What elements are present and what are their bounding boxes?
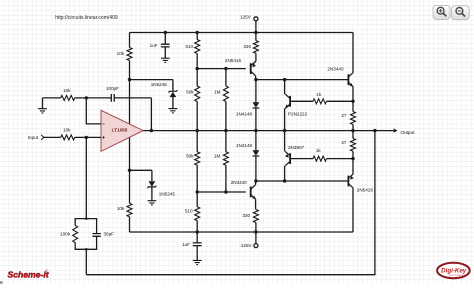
node top output emitter / 1k junction — [351, 100, 354, 103]
resistor 10k (input) — [44, 136, 61, 138]
svg-text:125V: 125V — [240, 14, 252, 19]
svg-text:1k: 1k — [316, 92, 322, 97]
svg-text:330: 330 — [242, 213, 250, 218]
resistor 27 (top) — [352, 101, 354, 111]
svg-text:27: 27 — [341, 140, 347, 145]
resistor 330 (bottom) — [255, 199, 257, 209]
svg-text:2N5416: 2N5416 — [357, 187, 374, 192]
svg-text:LT1055: LT1055 — [112, 128, 128, 133]
wire bottom supply rail — [130, 231, 354, 233]
svg-text:10k: 10k — [63, 88, 71, 93]
node bus / 1M junction — [224, 129, 227, 132]
svg-text:510: 510 — [185, 209, 193, 214]
transistor 2N5416 (bottom output, PNP) — [347, 176, 349, 187]
transistor 2N5416 (top driver, PNP) — [250, 63, 252, 74]
svg-text:330: 330 — [243, 44, 251, 49]
Digi-Key logo — [437, 263, 470, 278]
svg-text:-125V: -125V — [239, 243, 252, 248]
node bus / feedback junction — [373, 129, 376, 132]
svg-text:P2N2222: P2N2222 — [288, 112, 308, 117]
node V+ zener tap — [128, 78, 131, 81]
node bottom collector line / limiter collector — [283, 179, 286, 182]
wire V+ tap to zener — [130, 79, 173, 81]
resistor 50k (top) — [196, 69, 198, 86]
node bottom base-line / 1M junction — [224, 190, 227, 193]
capacitor 1uF (bottom rail decoupling) — [196, 232, 198, 243]
svg-text:50k: 50k — [186, 154, 194, 159]
ground (top 1uF) — [161, 58, 170, 62]
transistor 2N3440 (top output, NPN) — [347, 74, 349, 85]
svg-text:1M: 1M — [214, 89, 221, 94]
svg-text:1N5245: 1N5245 — [159, 191, 176, 196]
node bus / limiter emitters junction — [283, 129, 286, 132]
diode 1N4148 (lower) — [255, 131, 257, 151]
svg-text:1uF: 1uF — [150, 43, 158, 48]
wire bottom base line — [197, 191, 246, 193]
svg-text:http://circuits.linear.com/409: http://circuits.linear.com/409 — [55, 15, 118, 21]
svg-text:Scheme-it: Scheme-it — [8, 270, 50, 280]
resistor 10k (V+ bias) — [129, 33, 131, 48]
svg-text:1N4148: 1N4148 — [236, 112, 253, 117]
node inverting input junction — [85, 136, 88, 139]
resistor 1k (bottom) — [290, 158, 313, 160]
node bottom output emitter / 1k junction — [351, 157, 354, 160]
wire top collector line (Q1 to Q2 base) — [256, 79, 349, 81]
node diode chain / bottom collector line — [254, 179, 257, 182]
node junction bottom rail / -125V — [254, 230, 257, 233]
svg-text:Input: Input — [28, 135, 39, 140]
node bus / output stage junction — [351, 129, 354, 132]
wire bottom collector line (to bottom output base) — [256, 180, 349, 182]
capacitor 1uF (top rail decoupling) — [164, 33, 166, 45]
resistor 1M (bottom) — [225, 131, 227, 152]
transistor P2N2222 (top limiter, NPN) — [289, 96, 291, 107]
svg-text:10k: 10k — [117, 51, 125, 56]
resistor 1M (top) — [225, 69, 227, 86]
node bus / 50k junction — [196, 129, 199, 132]
node junction top rail / 510 — [196, 31, 199, 34]
svg-text:510: 510 — [185, 44, 193, 49]
svg-text:50k: 50k — [186, 90, 194, 95]
svg-text:1N4148: 1N4148 — [236, 143, 253, 148]
node collector line / current-limit collector — [283, 78, 286, 81]
resistor 27 (bottom) — [352, 131, 354, 139]
node top base-line / 1M junction — [224, 67, 227, 70]
svg-text:27: 27 — [341, 113, 347, 118]
wire top base line — [197, 68, 246, 70]
node feedback box bottom junction — [85, 248, 88, 251]
wire 100pF to op-amp output — [150, 98, 152, 131]
ground (V- zener) — [148, 201, 157, 205]
node collector line / diode chain — [254, 78, 257, 81]
ground (bottom 1uF) — [193, 260, 202, 264]
svg-text:1M: 1M — [214, 154, 221, 159]
svg-text:1uF: 1uF — [182, 242, 190, 247]
node output / local feedback junction — [150, 129, 153, 132]
wire -125V terminal to bottom rail — [255, 232, 257, 244]
zener diode 1N5245 (V- clamp) — [151, 170, 153, 181]
wire + input stub — [86, 98, 101, 124]
capacitor 100pF (local feedback) — [86, 97, 111, 99]
wire feedback drop — [86, 131, 375, 275]
capacitor 30pF (feedback) — [86, 219, 96, 234]
resistor 10k (V- bias) — [129, 137, 131, 203]
node -125V terminal — [254, 244, 258, 248]
op-amp - input mark — [102, 123, 104, 125]
ground (V+ zener) — [169, 109, 178, 113]
op-amp LT1055 — [101, 110, 143, 151]
node bus / diode chain junction — [254, 129, 257, 132]
node +125V terminal — [254, 17, 258, 21]
svg-text:2N3440: 2N3440 — [327, 66, 344, 71]
transistor 2N3440 (bottom driver, NPN) — [250, 187, 252, 198]
zoom-out button — [452, 6, 470, 20]
node top base-line / 510-50k junction — [196, 67, 199, 70]
svg-text:100pF: 100pF — [106, 86, 119, 91]
node + input junction — [85, 96, 88, 99]
node bottom base-line / 50k-510 junction — [196, 190, 199, 193]
wire op-amp output bus — [143, 130, 394, 132]
node junction top rail / 1uF — [164, 31, 167, 34]
transistor 2N3907 (bottom limiter, PNP) — [289, 153, 291, 164]
node V- zener tap — [128, 169, 131, 172]
svg-text:2N5416: 2N5416 — [225, 58, 242, 63]
node junction top rail / 125V-330 — [254, 31, 257, 34]
svg-text:2N3907: 2N3907 — [288, 145, 305, 150]
wire 125V terminal to top rail — [255, 21, 257, 33]
node junction bottom rail / 1uF — [196, 230, 199, 233]
resistor 50k (bottom) — [196, 131, 198, 152]
node Output terminal arrow — [394, 128, 398, 132]
diode 1N4148 (upper) — [255, 80, 257, 103]
resistor 1k (top) — [290, 100, 313, 102]
resistor 510 (bottom) — [196, 192, 198, 207]
svg-text:100k: 100k — [60, 232, 71, 237]
svg-text:ELECTRONICS: ELECTRONICS — [449, 275, 464, 277]
svg-text:10k: 10k — [117, 206, 125, 211]
wire top supply rail — [130, 32, 354, 34]
ground (+ input network) — [42, 98, 44, 109]
svg-text:30pF: 30pF — [104, 232, 115, 237]
resistor 10k (to ground at + input) — [43, 97, 61, 99]
zener diode 1N5245 (V+ clamp) — [172, 80, 174, 92]
wire feedback riser — [85, 249, 87, 274]
resistor 330 (top) — [255, 33, 257, 41]
svg-text:Digi-Key: Digi-Key — [441, 267, 467, 274]
svg-text:1N5245: 1N5245 — [151, 82, 168, 87]
resistor 510 (top) — [196, 33, 198, 40]
wire feedback to inverting input — [85, 137, 87, 218]
node feedback box top junction — [85, 217, 88, 220]
svg-text:1k: 1k — [316, 148, 322, 153]
svg-text:Output: Output — [401, 130, 416, 135]
svg-text:10k: 10k — [63, 128, 71, 133]
corner artifact — [0, 281, 3, 284]
resistor 100k (feedback) — [75, 219, 86, 226]
op-amp + input mark — [102, 136, 105, 139]
svg-text:2N3440: 2N3440 — [231, 180, 248, 185]
zoom-in button — [433, 5, 450, 19]
wire V- tap to zener — [130, 169, 152, 171]
